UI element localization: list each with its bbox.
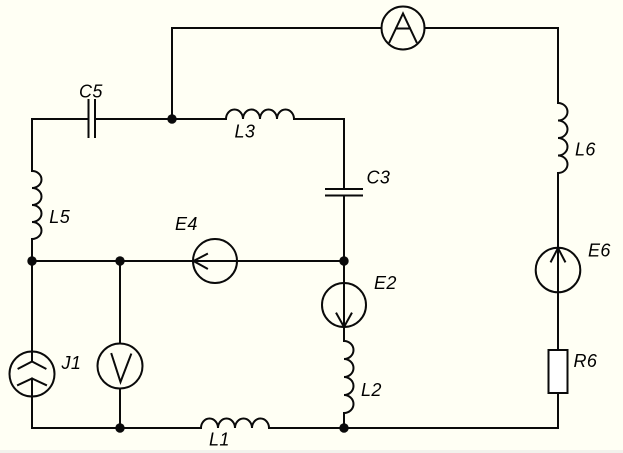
wire bottom rail left segment <box>32 427 201 429</box>
wire C5 to L3 (y=119, x=95..226) <box>95 118 226 120</box>
wire L2 to bottom rail <box>343 413 345 428</box>
inductor L5 <box>32 171 42 239</box>
capacitor C5 <box>89 100 96 137</box>
inductor L1 <box>201 419 269 429</box>
svg-text:E6: E6 <box>588 241 611 261</box>
junction node at C5/L3/riser <box>167 114 176 123</box>
svg-text:J1: J1 <box>61 353 82 373</box>
wire E6 to R6 <box>557 293 559 351</box>
svg-text:L3: L3 <box>235 121 256 141</box>
svg-text:E4: E4 <box>175 214 198 234</box>
source E6 <box>536 248 581 293</box>
wire top rail left of ammeter <box>172 27 382 29</box>
junction node left mid <box>27 256 36 265</box>
wire L6 to E6 <box>557 173 559 248</box>
wire L5 to node <box>31 239 33 261</box>
wire top rail right of ammeter <box>425 28 559 103</box>
svg-text:L2: L2 <box>361 380 382 400</box>
wire top-left vertical (x=32, y=119..171) <box>31 119 33 171</box>
inductor L6 <box>558 103 568 173</box>
svg-text:L1: L1 <box>209 430 230 450</box>
wire V branch top (x=120) <box>119 261 121 344</box>
wire R6 to bottom rail <box>557 393 559 428</box>
voltmeter V <box>98 344 143 389</box>
wire riser from node to top rail (x=172) <box>171 28 173 119</box>
svg-text:C3: C3 <box>367 168 391 188</box>
svg-text:C5: C5 <box>79 82 103 102</box>
wire L3 to corner and down to C3 (x=344) <box>294 119 344 189</box>
svg-text:L5: L5 <box>49 207 70 227</box>
ammeter U1 <box>382 7 425 50</box>
wire bottom rail right segment <box>269 427 558 429</box>
svg-text:R6: R6 <box>574 351 598 371</box>
wire top horizontal left segment (y=119, x=32..88) <box>32 118 88 120</box>
wire C3 to node (x=344) <box>343 196 345 262</box>
inductor L2 <box>344 341 354 413</box>
junction node L2 bottom <box>339 423 348 432</box>
junction node voltmeter bottom <box>115 423 124 432</box>
capacitor C3 <box>326 189 362 196</box>
svg-text:E2: E2 <box>374 273 397 293</box>
resistor R6 <box>549 350 568 393</box>
junction node C3/E2/E4 <box>339 256 348 265</box>
source E2 <box>322 283 366 327</box>
svg-text:L6: L6 <box>575 140 596 160</box>
wire V branch bottom <box>119 389 121 429</box>
junction node voltmeter top <box>115 256 124 265</box>
wire E2 to L2 <box>343 327 345 341</box>
inductor L3 <box>226 110 294 120</box>
wire node to J1 <box>31 261 33 362</box>
source E4 <box>193 239 237 283</box>
wire middle horizontal (y=261) <box>32 260 344 262</box>
current source J1 <box>10 352 55 429</box>
wire node to E2 <box>343 261 345 283</box>
